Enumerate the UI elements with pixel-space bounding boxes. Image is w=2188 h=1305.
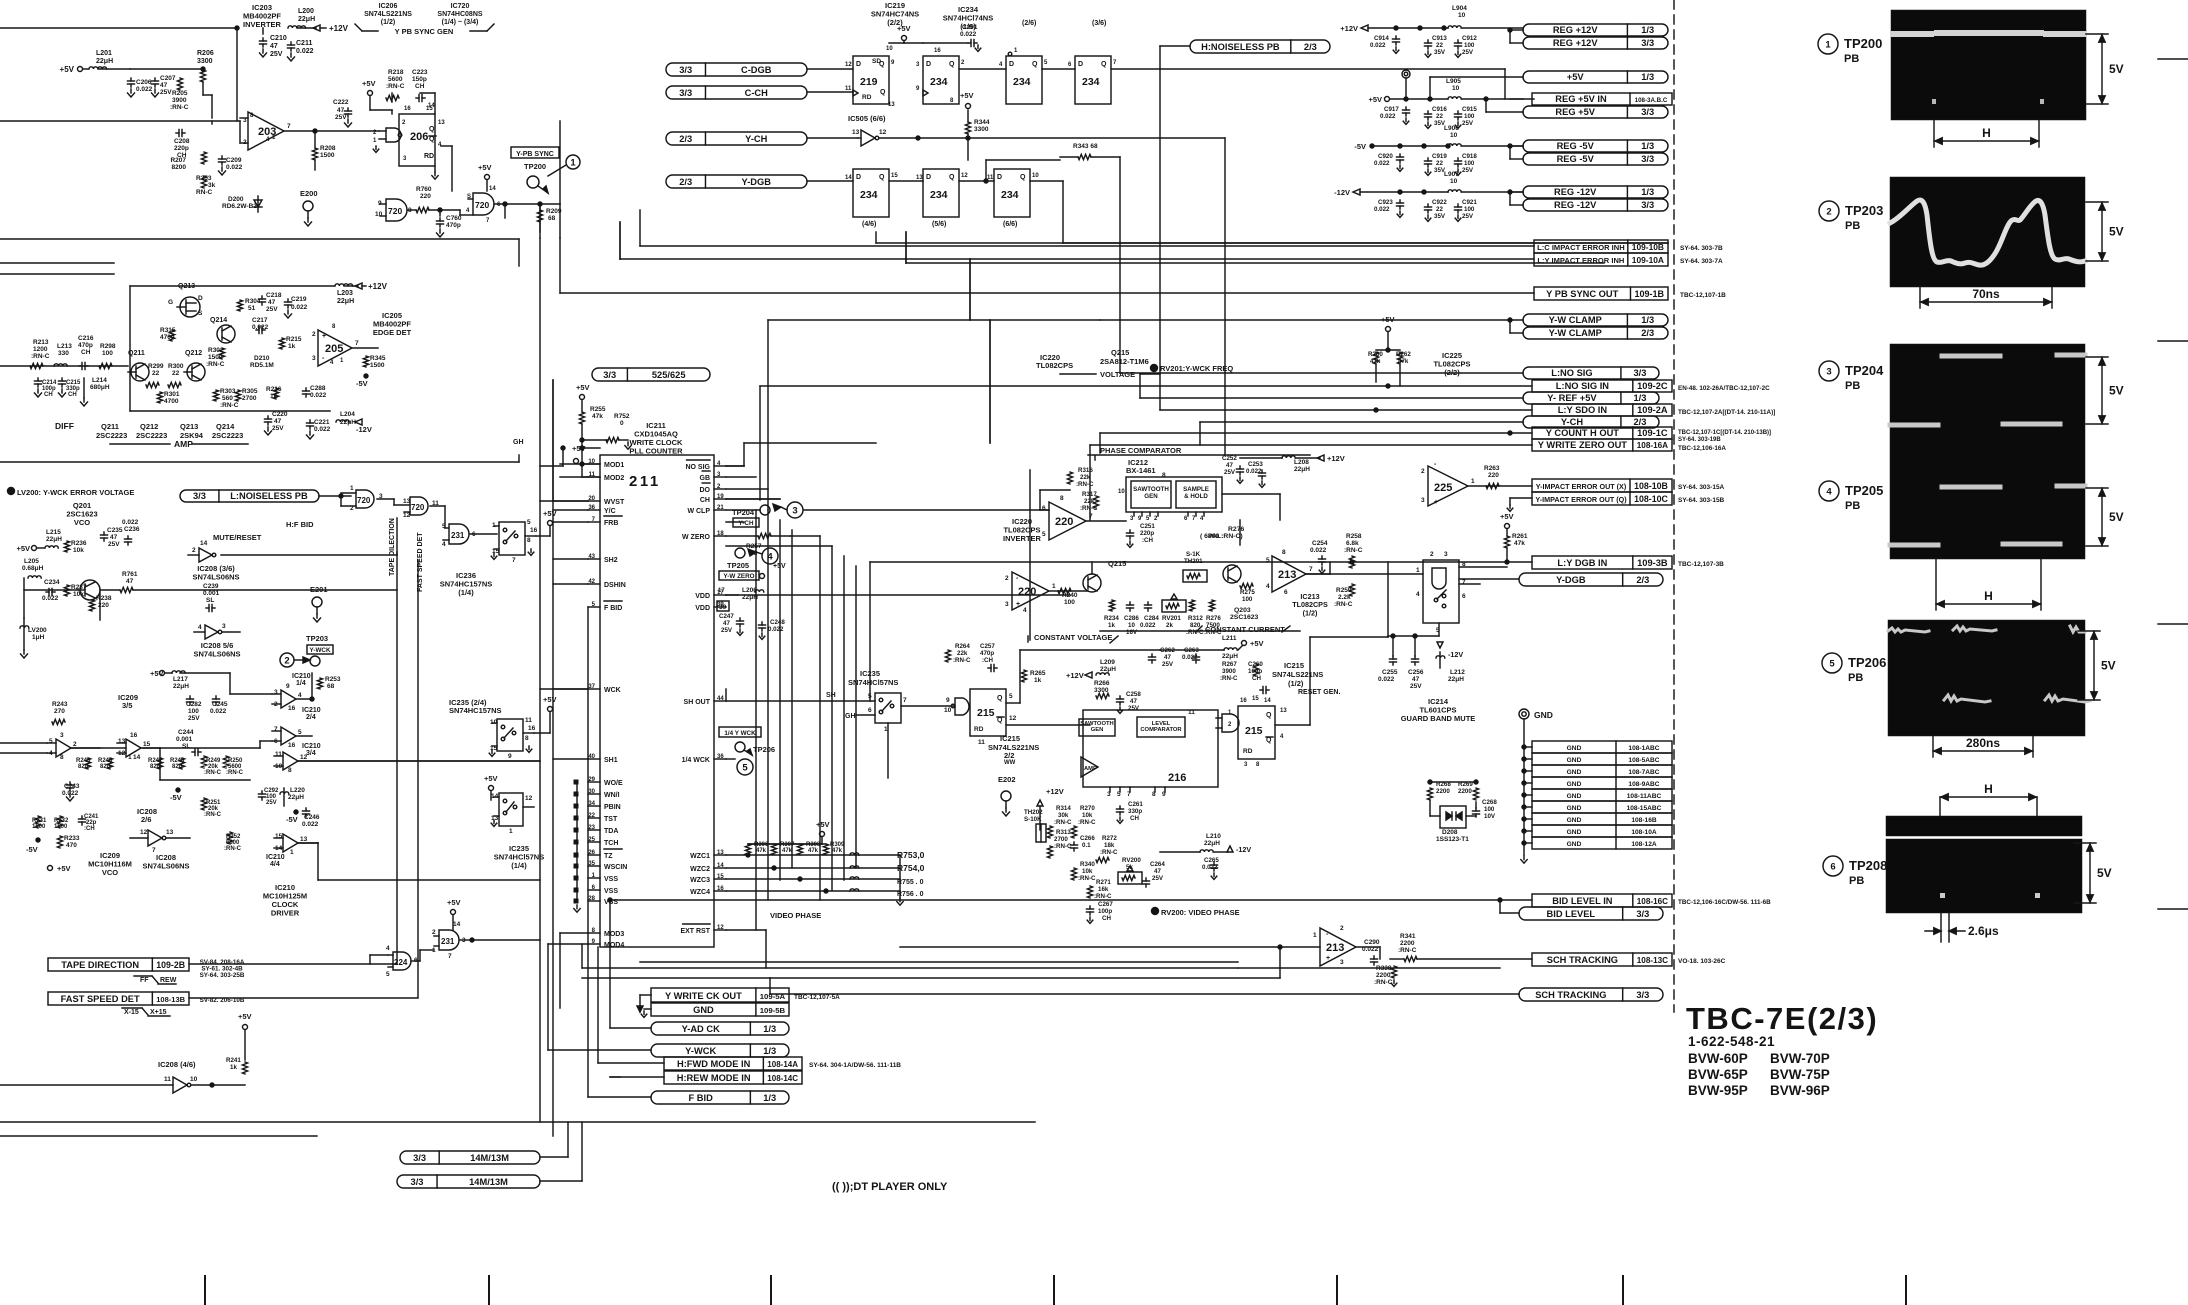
svg-text::RN-C: :RN-C — [204, 770, 222, 776]
svg-text:+5V: +5V — [960, 91, 974, 100]
flag F BID — [651, 1091, 789, 1104]
wire bus J — [831, 546, 833, 890]
svg-text:0.022: 0.022 — [314, 426, 331, 433]
svg-text:PHASE COMPARATOR: PHASE COMPARATOR — [1100, 446, 1182, 455]
svg-text:12: 12 — [140, 829, 148, 836]
svg-text:PB: PB — [1845, 380, 1860, 392]
svg-text:WO/E: WO/E — [604, 780, 623, 787]
gnd jack symbol — [1519, 709, 1529, 719]
svg-text:47k: 47k — [808, 848, 819, 854]
+12V supply — [313, 25, 320, 31]
svg-text:3/3: 3/3 — [411, 1177, 424, 1187]
svg-text:REW: REW — [160, 977, 177, 984]
svg-text:14M/13M: 14M/13M — [469, 1177, 508, 1187]
svg-text:47: 47 — [1412, 676, 1420, 683]
svg-text:MOD4: MOD4 — [604, 942, 624, 949]
svg-text:R343 68: R343 68 — [1073, 143, 1098, 150]
svg-text:22μH: 22μH — [1294, 466, 1310, 473]
svg-text:11: 11 — [978, 739, 985, 746]
-12V supply — [355, 419, 362, 425]
svg-text:5: 5 — [386, 971, 390, 978]
svg-text:RD: RD — [424, 153, 434, 160]
svg-text:BVW-60P: BVW-60P — [1688, 1051, 1748, 1066]
svg-text:10: 10 — [190, 1076, 198, 1083]
svg-text:2SA812-T1M6: 2SA812-T1M6 — [1100, 357, 1149, 366]
svg-text:1: 1 — [509, 828, 513, 835]
H interval arrow TP200 — [1933, 120, 1935, 147]
svg-text:3/5: 3/5 — [122, 701, 132, 710]
svg-text:14: 14 — [489, 186, 496, 192]
flip-flop IC234 a — [923, 56, 959, 104]
svg-text:(5/6): (5/6) — [932, 221, 946, 228]
svg-text:C256: C256 — [1408, 669, 1424, 676]
svg-text:3300: 3300 — [197, 58, 213, 65]
wire bus H — [869, 562, 871, 701]
svg-text:R218: R218 — [388, 69, 404, 76]
flip-flop IC206 body — [399, 114, 435, 166]
svg-text:2/3: 2/3 — [1304, 42, 1317, 52]
svg-text:R271: R271 — [1096, 879, 1111, 886]
svg-text:TP203: TP203 — [1845, 203, 1883, 218]
svg-text:4: 4 — [442, 541, 446, 548]
svg-text:10V: 10V — [1484, 813, 1496, 820]
wire — [369, 96, 371, 110]
capacitor C916 — [1427, 111, 1429, 114]
svg-text:RV200: VIDEO PHASE: RV200: VIDEO PHASE — [1161, 908, 1240, 917]
svg-text:205: 205 — [325, 343, 343, 355]
svg-text:3: 3 — [312, 355, 316, 362]
svg-text:47k: 47k — [592, 413, 603, 420]
svg-text:234: 234 — [930, 189, 948, 201]
svg-text:8: 8 — [288, 767, 292, 774]
svg-text:3: 3 — [792, 505, 797, 516]
svg-text:H: H — [1982, 126, 1991, 140]
svg-text:+5V: +5V — [16, 544, 30, 553]
svg-text:H: H — [1984, 782, 1993, 796]
svg-text:SCH TRACKING: SCH TRACKING — [1547, 955, 1618, 965]
flag Y-W ZERO — [719, 571, 759, 580]
svg-text:2700: 2700 — [242, 395, 257, 402]
svg-text:S-10K: S-10K — [1024, 816, 1042, 823]
svg-text:1μH: 1μH — [32, 634, 45, 641]
svg-text:9: 9 — [286, 683, 290, 690]
wire r253 node — [311, 673, 313, 699]
svg-text::CH: :CH — [982, 657, 994, 664]
svg-text:220: 220 — [1018, 586, 1036, 598]
svg-text:VSS: VSS — [604, 876, 618, 883]
svg-text:5: 5 — [1266, 557, 1270, 564]
gate IC209 a — [56, 739, 71, 757]
resistor R312 — [1189, 600, 1194, 611]
svg-text:R300: R300 — [168, 363, 184, 370]
svg-text:C923: C923 — [1378, 199, 1393, 206]
svg-text:C284: C284 — [1144, 615, 1159, 622]
gate NAND 215 clk — [955, 698, 969, 715]
wire bus E — [1199, 422, 1201, 445]
flag Y WRITE CK OUT — [651, 988, 789, 1002]
svg-text:L904: L904 — [1452, 5, 1467, 12]
svg-text:C217: C217 — [252, 317, 268, 324]
svg-text:C268: C268 — [1482, 799, 1497, 806]
capacitor C236 — [127, 536, 129, 539]
svg-text:2/2: 2/2 — [1004, 751, 1014, 760]
svg-text:47k: 47k — [782, 848, 793, 854]
svg-text:100: 100 — [1464, 113, 1475, 120]
svg-text:Y PB SYNC OUT: Y PB SYNC OUT — [1546, 289, 1618, 299]
svg-text:Y-CH: Y-CH — [1561, 417, 1583, 427]
svg-text:12: 12 — [879, 129, 887, 136]
svg-text:C290: C290 — [1364, 939, 1380, 946]
flag L:C IMPACT ERROR INH — [1534, 240, 1668, 253]
svg-text:12: 12 — [403, 512, 411, 519]
flag L:Y DGB IN — [1532, 556, 1672, 569]
capacitor C243 — [69, 782, 71, 785]
svg-text:R755 . 0: R755 . 0 — [897, 879, 924, 886]
svg-text:-12V: -12V — [1448, 650, 1463, 659]
svg-text:108-13C: 108-13C — [1637, 956, 1668, 965]
svg-text:2: 2 — [1421, 468, 1425, 475]
svg-text:GEN: GEN — [1091, 727, 1104, 733]
capacitor C284 — [1147, 602, 1149, 605]
svg-text:1/3: 1/3 — [1641, 315, 1654, 325]
svg-text:0.022: 0.022 — [252, 324, 269, 331]
svg-text:10: 10 — [1118, 489, 1125, 495]
svg-text:1200: 1200 — [33, 346, 48, 353]
svg-text:SY-64. 304-1A/DW-56. 111-11B: SY-64. 304-1A/DW-56. 111-11B — [809, 1062, 901, 1069]
svg-text:470p: 470p — [78, 342, 93, 349]
svg-text:FAST SPEED DET: FAST SPEED DET — [417, 532, 424, 592]
svg-text:IC505 (6/6): IC505 (6/6) — [848, 114, 886, 123]
svg-text:R305: R305 — [242, 388, 258, 395]
svg-text:X+15: X+15 — [150, 1009, 167, 1016]
svg-text:LV200: LV200 — [28, 627, 47, 634]
svg-text:R275: R275 — [1240, 589, 1255, 596]
svg-text:2200: 2200 — [1458, 788, 1472, 795]
svg-text:22μH: 22μH — [1100, 666, 1116, 673]
capacitor C208 — [176, 132, 179, 134]
svg-text:CH: CH — [68, 392, 77, 398]
svg-text:(1/4): (1/4) — [511, 861, 527, 870]
svg-text:+5V: +5V — [1250, 639, 1264, 648]
svg-text:2700: 2700 — [1054, 836, 1068, 843]
svg-text:C917: C917 — [1384, 106, 1399, 113]
svg-text:L:Y SDO IN: L:Y SDO IN — [1558, 405, 1608, 415]
svg-text:25V: 25V — [1128, 705, 1140, 712]
op-amp 213 sch — [1320, 928, 1356, 966]
svg-text:3: 3 — [1005, 601, 1009, 608]
svg-text:Q214: Q214 — [210, 317, 227, 324]
svg-text:SN74LS06NS: SN74LS06NS — [192, 573, 239, 582]
svg-text:C248: C248 — [770, 619, 785, 626]
svg-text:WZC2: WZC2 — [690, 866, 710, 873]
svg-text:(1/4): (1/4) — [458, 588, 474, 597]
svg-text:10: 10 — [375, 211, 383, 218]
svg-text:FRB: FRB — [604, 520, 618, 527]
svg-text:25V: 25V — [721, 627, 733, 634]
svg-text:+5V: +5V — [543, 695, 557, 704]
svg-text:109-10A: 109-10A — [1632, 255, 1664, 265]
5V scale arrow TP204 — [2086, 356, 2108, 358]
svg-text:10: 10 — [1458, 12, 1466, 19]
svg-text:3/3: 3/3 — [413, 1153, 426, 1163]
svg-text:C221: C221 — [314, 419, 330, 426]
svg-text:C760: C760 — [446, 215, 462, 222]
test point TP206 callout — [735, 742, 745, 752]
svg-text:GND: GND — [1567, 817, 1582, 824]
scope photo TP206 — [1888, 620, 2085, 736]
svg-text:47: 47 — [337, 107, 345, 114]
wire bus F — [1099, 433, 1101, 453]
svg-text:270: 270 — [54, 708, 65, 715]
svg-text:FAST SPEED DET: FAST SPEED DET — [61, 994, 140, 1004]
svg-text:7: 7 — [355, 340, 359, 347]
wire bid level vertical — [609, 900, 611, 947]
svg-text:2/6: 2/6 — [141, 815, 151, 824]
svg-text:11: 11 — [525, 717, 532, 724]
svg-text:280ns: 280ns — [1966, 736, 2000, 750]
svg-text:1/3: 1/3 — [763, 1093, 776, 1103]
node junction — [235, 26, 239, 30]
wire long bottom bus — [0, 1121, 1035, 1123]
wire sample hold out — [1222, 493, 1280, 495]
wire tape direction vertical — [396, 552, 398, 963]
IC211 counter body — [600, 455, 714, 947]
svg-text:25V: 25V — [160, 89, 172, 96]
svg-text:RD5.1M: RD5.1M — [250, 362, 274, 369]
op-amp IC220 b — [1012, 572, 1049, 610]
svg-text:525/625: 525/625 — [652, 370, 686, 380]
svg-text:9: 9 — [946, 697, 950, 704]
svg-text:-5V: -5V — [170, 793, 182, 802]
svg-text:3/3: 3/3 — [1641, 107, 1654, 117]
capacitor C917 — [1405, 107, 1407, 110]
svg-text:(1/4) ~ (3/4): (1/4) ~ (3/4) — [442, 19, 479, 26]
svg-text:C258: C258 — [1126, 691, 1141, 698]
svg-text:C239: C239 — [203, 583, 219, 590]
flag L:Y SDO IN — [1532, 404, 1672, 416]
svg-text:3: 3 — [222, 623, 226, 630]
note RV200 video phase — [1152, 908, 1159, 915]
capacitor C255 — [1392, 656, 1394, 659]
svg-text:C291: C291 — [962, 24, 978, 31]
svg-text:100: 100 — [1484, 806, 1495, 813]
capacitor C218 — [261, 296, 263, 299]
svg-text::RN-C: :RN-C — [1220, 675, 1238, 682]
flag Y-DGB — [666, 175, 807, 188]
svg-text:Q: Q — [879, 174, 885, 181]
svg-text::RN-C: :RN-C — [1078, 819, 1096, 826]
svg-text:47: 47 — [1130, 698, 1137, 705]
wire phase comp in — [1040, 509, 1049, 511]
svg-text:16: 16 — [528, 725, 536, 732]
op-amp IC203 — [248, 112, 284, 150]
svg-text:6: 6 — [1830, 861, 1835, 872]
flip-flop IC234 d — [853, 169, 889, 217]
diode pair D208 — [1440, 806, 1466, 828]
svg-text:3/3: 3/3 — [679, 88, 692, 98]
svg-text:25V: 25V — [272, 425, 284, 432]
flag REG -12V 1/3 — [1523, 186, 1668, 198]
svg-text:EDGE DET: EDGE DET — [373, 328, 412, 337]
svg-text:C235: C235 — [107, 527, 123, 534]
svg-text:10k: 10k — [73, 547, 84, 554]
op-amp IC205 — [318, 330, 352, 366]
svg-text:25V: 25V — [270, 51, 283, 58]
svg-text:+5V: +5V — [1368, 95, 1382, 104]
svg-text:5: 5 — [49, 738, 53, 745]
svg-text:+5V: +5V — [478, 163, 492, 172]
svg-text:2/3: 2/3 — [1633, 417, 1646, 427]
svg-text:22: 22 — [1436, 113, 1443, 120]
wire IC209 inputs from left — [0, 742, 47, 744]
capacitor C215 — [61, 378, 63, 381]
svg-text:L:NO SIG IN: L:NO SIG IN — [1556, 381, 1609, 391]
wire WZC3 — [726, 878, 900, 880]
wire sch tracking — [1356, 946, 1380, 948]
svg-text:1500: 1500 — [54, 824, 68, 830]
svg-text:IC206: IC206 — [379, 3, 398, 10]
resistor R253 — [317, 678, 322, 689]
svg-text:C286: C286 — [1124, 615, 1139, 622]
svg-text:GH: GH — [513, 439, 524, 446]
svg-text:2: 2 — [1430, 551, 1434, 558]
selector IC235 1/4 — [499, 793, 523, 826]
svg-text:SY-64. 303-15A: SY-64. 303-15A — [1678, 484, 1725, 491]
svg-text:1500: 1500 — [32, 824, 46, 830]
resistor R353 — [201, 176, 206, 188]
svg-text:H:FWD MODE IN: H:FWD MODE IN — [677, 1059, 751, 1069]
svg-text:Q: Q — [429, 136, 435, 143]
svg-text::RN-C: :RN-C — [1374, 979, 1393, 986]
svg-text:RD6.2W-B2: RD6.2W-B2 — [222, 203, 257, 210]
capacitor C286 — [1129, 602, 1131, 605]
svg-text:+12V: +12V — [1066, 671, 1084, 680]
svg-text:D210: D210 — [254, 355, 270, 362]
svg-text:-12V: -12V — [1334, 188, 1350, 197]
svg-text:22μH: 22μH — [173, 683, 189, 690]
svg-text:8: 8 — [525, 735, 529, 742]
resistor R248 — [179, 758, 184, 769]
flag REG +12V 3/3 — [1523, 37, 1668, 49]
svg-text:1/4: 1/4 — [296, 680, 306, 687]
svg-text:25V: 25V — [1410, 683, 1422, 690]
svg-text:0.022: 0.022 — [122, 519, 139, 526]
capacitor C206 — [130, 78, 132, 81]
svg-text:D: D — [856, 61, 861, 68]
wire gate chain b — [71, 747, 100, 749]
svg-text:Q214: Q214 — [216, 422, 235, 431]
svg-text::RN-C: :RN-C — [1334, 601, 1353, 608]
flag +5V 1/3 — [1523, 71, 1668, 83]
svg-text:8: 8 — [1282, 549, 1286, 556]
svg-text:REG -5V: REG -5V — [1557, 141, 1595, 151]
svg-text:25V: 25V — [1224, 469, 1236, 476]
svg-text:Y-IMPACT ERROR OUT (X): Y-IMPACT ERROR OUT (X) — [1536, 482, 1627, 491]
svg-text:47: 47 — [274, 418, 282, 425]
svg-text:3: 3 — [1421, 497, 1425, 504]
svg-text:E201: E201 — [310, 585, 328, 594]
5V scale arrow TP206 — [2078, 630, 2100, 632]
svg-text:R315: R315 — [160, 327, 176, 334]
svg-text:GND: GND — [1567, 781, 1582, 788]
resistor R301 — [157, 392, 162, 403]
svg-text:TH202: TH202 — [1024, 809, 1043, 816]
svg-text:TAPE DILECTION: TAPE DILECTION — [389, 518, 396, 576]
svg-text:L217: L217 — [173, 676, 188, 683]
svg-text:L208: L208 — [1294, 459, 1309, 466]
svg-text:TBC-12,107-2A[(DT-14. 210-11A): TBC-12,107-2A[(DT-14. 210-11A)] — [1678, 409, 1775, 416]
svg-text:VCO: VCO — [102, 868, 118, 877]
svg-text:100: 100 — [1464, 160, 1475, 167]
svg-text:C914: C914 — [1374, 35, 1389, 42]
wire横 — [540, 500, 588, 502]
svg-text:W CLP: W CLP — [687, 508, 710, 515]
svg-text::RN-C: :RN-C — [953, 657, 971, 664]
flag Y WRITE ZERO OUT — [1532, 439, 1672, 451]
svg-text:R216: R216 — [266, 386, 282, 393]
svg-text:15: 15 — [275, 833, 283, 840]
resistor R205 — [177, 78, 182, 90]
svg-text:10k: 10k — [1082, 812, 1093, 819]
svg-text:68: 68 — [327, 683, 335, 690]
svg-text:L214: L214 — [92, 377, 107, 384]
svg-text:47: 47 — [1226, 462, 1233, 469]
svg-text:3/3: 3/3 — [1641, 200, 1654, 210]
svg-text:100: 100 — [102, 350, 113, 357]
svg-text:108-5ABC: 108-5ABC — [1628, 757, 1659, 764]
svg-text:3/3: 3/3 — [603, 370, 616, 380]
wire bus A — [768, 319, 1100, 321]
svg-text:BVW-96P: BVW-96P — [1770, 1083, 1830, 1098]
capacitor C217 — [256, 329, 259, 331]
svg-text:0.022: 0.022 — [210, 708, 227, 715]
inverter IC208 3/6 — [199, 548, 212, 562]
wire bus M — [1063, 242, 1668, 244]
svg-text:R303: R303 — [220, 388, 236, 395]
svg-text:Y-WCK: Y-WCK — [310, 647, 331, 654]
svg-text:2200: 2200 — [1436, 788, 1450, 795]
svg-text:1/3: 1/3 — [1633, 393, 1646, 403]
resistor R302 — [219, 348, 224, 359]
svg-text:SL: SL — [206, 597, 214, 604]
svg-text:(( ));DT PLAYER ONLY: (( ));DT PLAYER ONLY — [832, 1181, 948, 1193]
svg-text:5: 5 — [527, 519, 531, 526]
resistor R207 — [201, 152, 206, 164]
wire 231b to bus — [472, 939, 540, 941]
svg-text:R255: R255 — [590, 406, 606, 413]
svg-text:100: 100 — [1064, 599, 1075, 606]
svg-text:4: 4 — [1266, 583, 1270, 590]
wire IC211 left pin feeds — [553, 500, 588, 502]
svg-text:(2/6): (2/6) — [1022, 20, 1036, 27]
gate input NAND — [386, 128, 401, 142]
svg-text:1: 1 — [570, 157, 576, 168]
svg-text:2: 2 — [73, 741, 77, 748]
circled 1 tie point — [566, 155, 580, 169]
+12V supply — [355, 283, 362, 289]
svg-text:SN74HC08NS: SN74HC08NS — [437, 11, 482, 18]
5V scale arrow TP203 — [2086, 201, 2108, 203]
svg-text:22μH: 22μH — [298, 16, 315, 23]
svg-text:TP200: TP200 — [524, 162, 546, 171]
svg-text:0.022: 0.022 — [226, 164, 243, 171]
svg-text:SAWTOOTH: SAWTOOTH — [1133, 486, 1169, 493]
selector IC235 2/4 — [497, 719, 523, 751]
svg-text:10: 10 — [1032, 173, 1039, 179]
svg-text:Q: Q — [880, 89, 886, 96]
wire q215 collector — [1091, 562, 1093, 574]
wire left cluster verticals — [229, 673, 231, 694]
